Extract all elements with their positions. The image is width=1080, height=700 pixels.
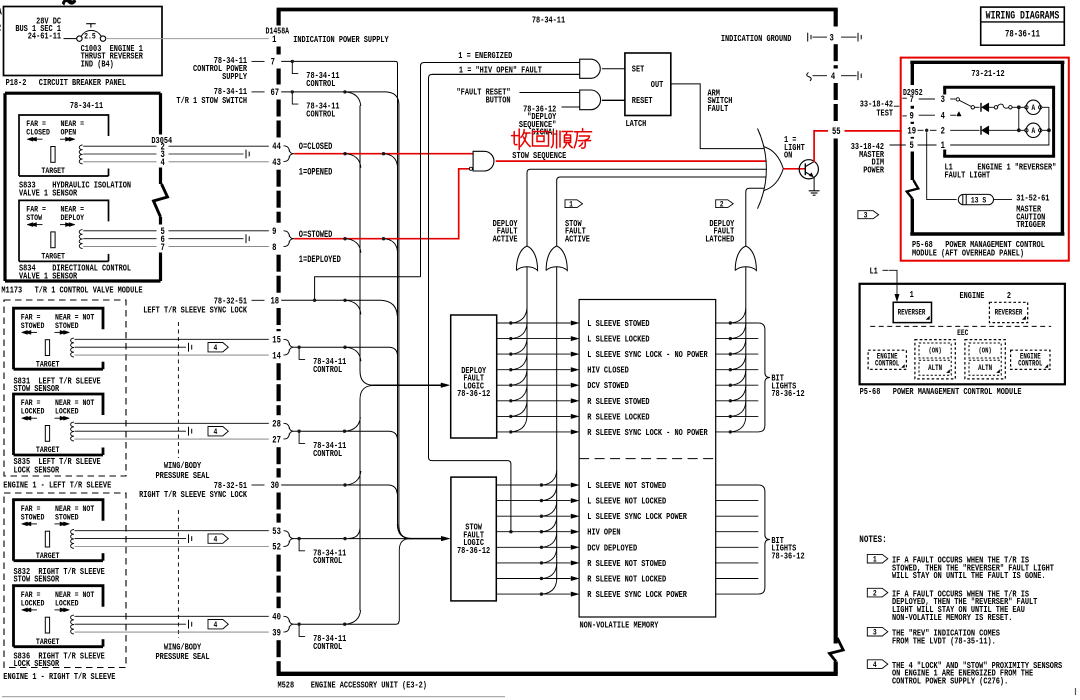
AND gate U2 (fault reset & deploy sequence) — [580, 90, 601, 110]
wing/body pressure seal dashed line (right group) — [177, 510, 179, 638]
branch curve deploy row 6 to deploy-active bus — [511, 386, 527, 401]
junction 9/8 to bus B — [382, 237, 385, 240]
junction NVM top row 3 — [729, 352, 732, 355]
AND U1 output to latch SET — [602, 68, 625, 70]
wire pins 53/52 + stow logic merge line — [294, 538, 405, 540]
svg-text:CONTROL: CONTROL — [1018, 360, 1042, 369]
wire pin 7 to bus B (control power supply) — [281, 61, 397, 524]
EEC group outer box 2 (dashed) — [965, 340, 1005, 379]
deploy output row 3 wire — [497, 353, 571, 355]
branch curve 30 up to bus A — [345, 471, 361, 485]
junction 44/43 to bus A — [343, 152, 346, 155]
leader dash pin 7 — [252, 60, 265, 62]
arrowhead NVM bottom row 4 — [571, 530, 579, 534]
svg-text:STOW SENSOR: STOW SENSOR — [14, 575, 60, 585]
svg-text:7: 7 — [910, 94, 914, 105]
svg-text:31-52-61: 31-52-61 — [1016, 194, 1049, 204]
note flag 2 at deploy fault latched — [716, 200, 734, 208]
wire S834 shield cont — [169, 238, 244, 240]
svg-text:R SLEEVE SYNC LOCK - NO POWER: R SLEEVE SYNC LOCK - NO POWER — [587, 428, 707, 438]
wire breaker to pin 1 D1458A — [106, 38, 269, 40]
sensor S835 left arrowhead 2 — [25, 416, 31, 420]
branch curve NVM row 1 to latched bus — [730, 309, 746, 324]
sensor S831 right arrow — [55, 331, 67, 333]
branch curve stow row 2 to stow-active bus — [541, 486, 556, 500]
junction stow row 3 — [540, 515, 543, 518]
svg-text:9: 9 — [910, 110, 914, 121]
svg-text:SUPPLY: SUPPLY — [222, 72, 247, 82]
svg-text:LATCH: LATCH — [626, 119, 647, 129]
svg-text:STOW: STOW — [26, 215, 42, 224]
svg-text:STOWED: STOWED — [55, 322, 79, 331]
sensor S836 proximity coil — [71, 615, 74, 634]
svg-text:2.5: 2.5 — [84, 33, 96, 42]
inversion bubble on U3 input — [469, 167, 472, 170]
svg-text:3: 3 — [941, 94, 945, 105]
junction deploy row 4 — [509, 368, 512, 371]
svg-text:52: 52 — [272, 542, 281, 553]
junction NVM top row 4 — [729, 368, 732, 371]
sensor S835 proximity coil — [71, 422, 74, 441]
corner triangle ctl-left — [902, 365, 905, 368]
leader dash pin 67 — [252, 91, 265, 93]
svg-text:(ON): (ON) — [978, 347, 991, 355]
branch curve 40/39 up to bus A — [345, 610, 361, 624]
bus A lower curve out of deploy merge — [360, 385, 373, 399]
wire L1 row3 start — [950, 98, 956, 100]
wire S834 top cont — [169, 230, 269, 232]
svg-text:3: 3 — [873, 629, 877, 638]
svg-text:78-36-12: 78-36-12 — [771, 389, 804, 399]
svg-text:WING/BODY: WING/BODY — [164, 641, 201, 652]
branch curve stow row 7 to stow-active bus — [541, 564, 556, 578]
svg-text:8: 8 — [272, 242, 276, 253]
deploy logic merge line — [373, 384, 442, 386]
wire L1 row4 stub — [950, 114, 956, 116]
label 78-34-11 CONTROL at pin 67 — [292, 93, 298, 104]
svg-text:STOW SEQUENCE: STOW SEQUENCE — [512, 151, 566, 161]
sensor S833 right arrow — [60, 138, 72, 140]
module M1173 T/R 1 control valve module outline — [5, 92, 161, 95]
junction dot pin 7 elbow — [291, 60, 294, 63]
footer divider line — [2, 696, 505, 698]
svg-text:TARGET: TARGET — [36, 361, 60, 370]
OR gate deploy fault latched — [735, 246, 756, 271]
arrowhead NVM top row 1 — [571, 321, 579, 325]
svg-text:13 S: 13 S — [971, 197, 987, 206]
svg-text:BUTTON: BUTTON — [486, 96, 511, 106]
wire lamp A2 to right rail — [1042, 129, 1049, 131]
svg-text:O=CLOSED: O=CLOSED — [299, 141, 333, 153]
EEC dashed divider — [870, 325, 1051, 327]
svg-text:NEAR =: NEAR = — [61, 206, 85, 215]
sensor S831 proximity coil — [71, 338, 74, 357]
svg-text:2: 2 — [1007, 291, 1011, 301]
svg-text:NOTES:: NOTES: — [859, 534, 886, 545]
junction lamp row2 — [1017, 128, 1021, 132]
wire latch OUT to arm-switch-fault / OR gate — [671, 84, 764, 149]
branch curve deploy row 7 to deploy-active bus — [511, 401, 527, 416]
svg-text:24-61-11: 24-61-11 — [28, 32, 61, 42]
svg-text:OUT: OUT — [651, 80, 664, 90]
svg-text:POWER: POWER — [863, 166, 884, 176]
junction NVM top row 5 — [729, 384, 732, 387]
svg-text:55: 55 — [832, 126, 841, 137]
arrowhead NVM bottom row 3 — [571, 514, 579, 518]
label 78-34-11 CONTROL at 28/27 — [299, 433, 305, 444]
svg-text:R SLEEVE NOT LOCKED: R SLEEVE NOT LOCKED — [587, 575, 666, 585]
svg-text:40: 40 — [272, 611, 281, 622]
svg-text:STOWED: STOWED — [21, 322, 45, 331]
wire S834 shield — [83, 238, 156, 240]
note flag 4 at S832 — [208, 534, 228, 543]
svg-text:P5-68 POWER MANAGEMENT CONTR: P5-68 POWER MANAGEMENT CONTROL MODULE — [860, 387, 1022, 397]
dashed group box ENGINE 1 - RIGHT T/R SLEEVE — [4, 493, 126, 668]
svg-text:TARGET: TARGET — [36, 552, 60, 561]
sensor S836 left arrowhead — [22, 608, 28, 612]
svg-text:19: 19 — [907, 125, 916, 136]
svg-text:RESET: RESET — [632, 96, 653, 106]
red wire pins 9/8 deploy switch — [294, 169, 469, 239]
svg-text:CONTROL: CONTROL — [306, 110, 335, 120]
wire right of pin 4 — [841, 75, 857, 77]
sensor S832 left arrowhead 2 — [25, 522, 31, 526]
svg-text:P18-2 CIRCUIT BREAKER PANEL: P18-2 CIRCUIT BREAKER PANEL — [6, 78, 126, 88]
svg-text:STOWED: STOWED — [21, 514, 45, 523]
svg-text:CONTROL: CONTROL — [875, 360, 899, 369]
junction NVM top row 8 — [729, 430, 732, 433]
branch curve NVM row 7 to latched bus — [730, 402, 746, 417]
stow output row 2 wire — [496, 500, 570, 502]
svg-text:ALTN: ALTN — [928, 364, 942, 373]
title box divider — [981, 21, 1065, 23]
junction deploy row 5 — [509, 384, 512, 387]
NVM bottom row 2 output wire — [716, 500, 759, 502]
svg-text:3: 3 — [864, 212, 868, 221]
big OR gate left sweep arc — [758, 129, 767, 209]
wire S831 top to M528 — [75, 338, 269, 340]
wire diode CR2 to lamp A2 — [989, 129, 1025, 131]
wire S836 top to M528 — [75, 615, 269, 617]
svg-text:CONTROL: CONTROL — [313, 365, 342, 375]
wire L1 row2 a — [950, 129, 979, 131]
stow output row 5 wire — [496, 546, 570, 548]
sensor S835 right arrowhead 2 — [60, 416, 66, 420]
junction dot 53/52 label elbow — [297, 537, 300, 540]
svg-text:R SLEEVE SYNC LOCK POWER: R SLEEVE SYNC LOCK POWER — [587, 590, 687, 600]
deploy output row 4 wire — [497, 369, 571, 371]
filament circle b — [1009, 106, 1012, 109]
svg-text:PRESSURE SEAL: PRESSURE SEAL — [156, 471, 210, 481]
branch curve deploy row 3 to deploy-active bus — [511, 339, 527, 354]
note flag 3 floating — [858, 211, 879, 219]
svg-text:VALVE 1 SENSOR: VALVE 1 SENSOR — [19, 189, 77, 199]
wire S833 bottom cont — [169, 161, 269, 163]
svg-text:LOCKED: LOCKED — [55, 600, 79, 609]
svg-text:1=OPENED: 1=OPENED — [299, 167, 333, 179]
sensor S832 right arrowhead — [64, 522, 70, 526]
svg-text:LOCK SENSOR: LOCK SENSOR — [14, 466, 60, 476]
module L1 fault light outline — [943, 86, 1055, 89]
svg-text:TRIGGER: TRIGGER — [1016, 220, 1045, 230]
NVM top row 1 output wire — [716, 322, 759, 324]
svg-text:78-36-11: 78-36-11 — [1005, 28, 1040, 39]
time delay relay 13 S — [958, 194, 993, 204]
branch curve 9/8 to bus B — [384, 239, 398, 252]
P5-68 left edge pin seg2 — [911, 122, 914, 124]
wire S831 bottom to M528 — [75, 354, 269, 356]
svg-text:TARGET: TARGET — [36, 447, 60, 456]
svg-text:STOWED: STOWED — [55, 514, 79, 523]
wing/body pressure seal dashed line (left group) — [177, 322, 179, 458]
M528 top edge — [277, 8, 838, 12]
svg-text:TEST: TEST — [876, 109, 893, 119]
M528 bottom edge — [277, 672, 838, 676]
svg-text:HIV OPEN: HIV OPEN — [587, 528, 620, 538]
svg-text:WIRING DIAGRAMS: WIRING DIAGRAMS — [986, 9, 1060, 21]
junction dot pin 67 branch to bus A — [343, 90, 346, 93]
branch curve NVM row 5 to latched bus — [730, 371, 746, 386]
sensor S831 target bar — [45, 340, 49, 356]
NVM bottom row 5 output wire — [716, 546, 759, 548]
svg-text:R SLEEVE NOT STOWED: R SLEEVE NOT STOWED — [587, 559, 666, 569]
NVM top row 4 output wire — [716, 369, 759, 371]
right margin tick — [1075, 688, 1077, 695]
wiring diagrams title box — [981, 7, 1065, 45]
svg-text:R SLEEVE STOWED: R SLEEVE STOWED — [587, 397, 649, 407]
svg-text:NON-VOLATILE MEMORY IS RESET.: NON-VOLATILE MEMORY IS RESET. — [892, 613, 1012, 623]
test leader ticks at pins 7/9 — [902, 97, 907, 99]
svg-text:67: 67 — [270, 87, 279, 98]
NVM bottom row 3 output wire — [716, 515, 759, 517]
svg-text:1: 1 — [873, 556, 877, 565]
M1173 right edge segment — [159, 253, 162, 282]
BIT LIGHTS bracket (deploy) — [758, 323, 770, 432]
svg-text:3: 3 — [830, 32, 834, 43]
wire filament to junction — [1012, 106, 1024, 108]
sensor S835 target bar — [45, 426, 49, 442]
P5-68 left edge segment — [911, 152, 914, 181]
svg-text:4: 4 — [161, 157, 165, 168]
branch curve NVM row 8 to latched bus — [730, 417, 746, 432]
red highlight box — [901, 58, 1069, 261]
junction stow row 6 — [540, 561, 543, 564]
lamp A1 right pip — [1039, 106, 1042, 109]
vertical junction link rows 3-2 — [1018, 107, 1020, 130]
svg-text:LOCKED: LOCKED — [21, 600, 45, 609]
junction right rail — [1047, 128, 1051, 132]
lamp A1 (annunciator) — [1026, 100, 1040, 114]
wire S832 shield — [75, 538, 187, 540]
svg-text:2: 2 — [941, 125, 945, 136]
junction 18 to bus A — [343, 299, 346, 302]
svg-text:SET: SET — [632, 65, 645, 75]
svg-text:FAR =: FAR = — [21, 314, 41, 323]
svg-text:DCV STOWED: DCV STOWED — [587, 381, 629, 391]
svg-text:CONTROL: CONTROL — [306, 79, 335, 89]
lamp A2 left pip — [1025, 129, 1028, 132]
junction stow row 1 — [540, 483, 543, 486]
junction NVM top row 1 — [729, 321, 732, 324]
svg-text:14: 14 — [272, 350, 281, 361]
svg-text:M528 ENGINE ACCESSORY UNIT: M528 ENGINE ACCESSORY UNIT (E3-2) — [278, 679, 427, 690]
svg-text:LOCKED: LOCKED — [55, 408, 79, 417]
red wire pin 55 to red box — [845, 130, 902, 132]
ground bond symbol right of pin 4 — [857, 71, 859, 80]
svg-text:(ON): (ON) — [928, 347, 941, 355]
bus A vertical lower — [359, 400, 361, 611]
lamp A1 left pip — [1025, 106, 1028, 109]
bracket pins 28/27 — [284, 423, 295, 439]
junction bus E to HIV OPEN row — [509, 530, 512, 533]
sensor S835 right arrow — [55, 417, 67, 419]
note flag 2 in notes — [867, 588, 888, 597]
ALTN box 1 (dashed) — [919, 360, 951, 375]
svg-text:DEPLOY: DEPLOY — [61, 215, 85, 224]
junction 40/39 to bus A — [343, 623, 346, 626]
junction stow row 5 — [540, 546, 543, 549]
AND U2 output to latch RESET — [602, 99, 625, 101]
NVM top row 5 output wire — [716, 384, 759, 386]
wire S836 bottom to M528 — [75, 631, 269, 633]
sensor S832 right arrow — [55, 523, 67, 525]
junction NVM top row 6 — [729, 399, 732, 402]
svg-text:30: 30 — [270, 480, 279, 491]
corner triangle altn 1 — [947, 370, 950, 373]
wire S836 shield — [75, 623, 187, 625]
wire to diode CR1 — [975, 106, 980, 108]
junction dot pin 67 elbow — [291, 90, 294, 93]
junction dot 40/39 label elbow — [297, 623, 300, 626]
sensor S833 left arrowhead — [27, 137, 33, 141]
riser wire 18 to bus D (energized line) — [315, 277, 421, 300]
svg-text:FAULT LIGHT: FAULT LIGHT — [945, 171, 991, 181]
svg-text:LOCK SENSOR: LOCK SENSOR — [14, 659, 60, 669]
arrowhead into deploy fault logic — [441, 383, 450, 388]
transistor Q1 lamp driver — [799, 160, 818, 179]
svg-text:TARGET: TARGET — [36, 638, 60, 647]
svg-text:9: 9 — [272, 226, 276, 237]
sensor S833 right arrowhead 2 — [66, 137, 72, 141]
shield termination S836 — [188, 620, 190, 629]
note flag 4 in notes — [867, 660, 888, 669]
sensor S835 right arrowhead — [64, 416, 70, 420]
stow output row 1 wire — [496, 484, 570, 486]
svg-text:NEAR = NOT: NEAR = NOT — [55, 400, 95, 409]
junction 15/14 to bus A — [343, 346, 346, 349]
AND gate U3 stow sequence — [473, 151, 494, 171]
wire pins 40/39 lock sensor — [294, 621, 399, 624]
arrowhead NVM top row 7 — [571, 414, 579, 418]
svg-text:1=DEPLOYED: 1=DEPLOYED — [299, 254, 341, 266]
svg-text:4: 4 — [873, 661, 877, 670]
svg-text:A: A — [1031, 127, 1035, 136]
sensor S836 left arrowhead 2 — [25, 608, 31, 612]
sensor S832 left arrow — [25, 523, 38, 525]
junction NVM top row 7 — [729, 415, 732, 418]
lamp A2 (annunciator) — [1026, 123, 1040, 137]
svg-text:44: 44 — [272, 141, 281, 152]
latch box — [625, 53, 671, 116]
dashed group box ENGINE 1 - LEFT T/R SLEEVE — [4, 300, 126, 476]
switch contact circle a — [956, 98, 959, 101]
svg-text:NON-VOLATILE MEMORY: NON-VOLATILE MEMORY — [580, 621, 659, 631]
branch curve 44/43 to bus A — [345, 154, 361, 168]
arrowhead NVM top row 4 — [571, 368, 579, 372]
wire time delay to trigger label — [994, 199, 1012, 201]
svg-text:ACTIVE: ACTIVE — [493, 235, 518, 245]
svg-text:ENGINE 1 - LEFT T/R SLEEVE: ENGINE 1 - LEFT T/R SLEEVE — [3, 480, 111, 491]
sensor S833 proximity coil — [79, 145, 82, 164]
corner triangle rev1 — [926, 316, 929, 319]
svg-text:28: 28 — [272, 418, 281, 429]
wire S835 shield — [75, 430, 187, 432]
svg-text:5: 5 — [910, 140, 914, 151]
NVM bottom row 8 output wire — [716, 593, 759, 595]
ground bond symbol right of pin 3 — [857, 33, 859, 42]
junction dot pin 19 (master caution tap) — [925, 129, 928, 132]
sensor S831 left arrowhead 2 — [25, 330, 31, 334]
wire right of pin 3 — [841, 36, 857, 38]
junction deploy row 7 — [509, 415, 512, 418]
wire S831 shield — [75, 346, 187, 348]
red wire pins 44/43 stow switch closed — [294, 153, 473, 155]
bus A curve into deploy merge — [360, 371, 374, 385]
branch curve deploy row 8 to deploy-active bus — [511, 417, 527, 432]
branch curve NVM row 6 to latched bus — [730, 386, 746, 401]
svg-text:FAULT: FAULT — [708, 104, 729, 114]
svg-text:CONTROL: CONTROL — [313, 449, 342, 459]
red wire U3 output (stow sequence) — [496, 160, 766, 162]
svg-text:NEAR = NOT: NEAR = NOT — [55, 505, 95, 514]
note flag 4 at S835 — [208, 427, 228, 436]
svg-text:1 = ENERGIZED: 1 = ENERGIZED — [458, 51, 512, 61]
svg-text:4: 4 — [213, 536, 217, 545]
BIT LIGHTS bracket (stow) — [758, 485, 770, 594]
stow output row 8 wire — [496, 593, 570, 595]
branch curve NVM row 2 to latched bus — [730, 324, 746, 339]
svg-text:7: 7 — [161, 242, 165, 253]
wire S833 bottom to M528 — [83, 161, 156, 163]
junction 44/43 to bus B — [382, 152, 385, 155]
svg-text:D1458A: D1458A — [266, 28, 290, 37]
svg-text:2: 2 — [720, 201, 724, 210]
deploy output row 7 wire — [497, 415, 571, 417]
sensor S836 box — [14, 586, 104, 647]
sensor S831 right arrowhead — [64, 330, 70, 334]
svg-text:ENGINE: ENGINE — [960, 291, 985, 301]
ground bond symbol left of pin 3 — [807, 33, 809, 42]
wire D2952 19-2b — [930, 129, 937, 131]
junction dot 28/27 label elbow — [297, 430, 300, 433]
sensor S834 right arrow — [60, 224, 72, 226]
sensor S836 right arrowhead — [64, 608, 70, 612]
wire pin 18 left sync lock — [281, 300, 397, 316]
deploy output row 1 wire — [497, 322, 571, 324]
svg-text:LEFT T/R SLEEVE SYNC LOCK: LEFT T/R SLEEVE SYNC LOCK — [143, 304, 247, 315]
OR gate stow fault active — [546, 246, 567, 271]
sensor S831 left arrowhead — [22, 330, 28, 334]
svg-text:73-21-12: 73-21-12 — [971, 69, 1004, 79]
junction deploy row 8 — [509, 430, 512, 433]
deploy output row 8 wire — [497, 431, 571, 433]
svg-text:OPEN: OPEN — [61, 129, 77, 138]
corner triangle altn 2 — [997, 370, 1000, 373]
wire S835 top to M528 — [75, 422, 269, 424]
junction 53/52 to bus A — [343, 537, 346, 540]
M528 left edge (connector D1458A side, dashed) — [277, 10, 281, 26]
junction NVM top row 2 — [729, 337, 732, 340]
